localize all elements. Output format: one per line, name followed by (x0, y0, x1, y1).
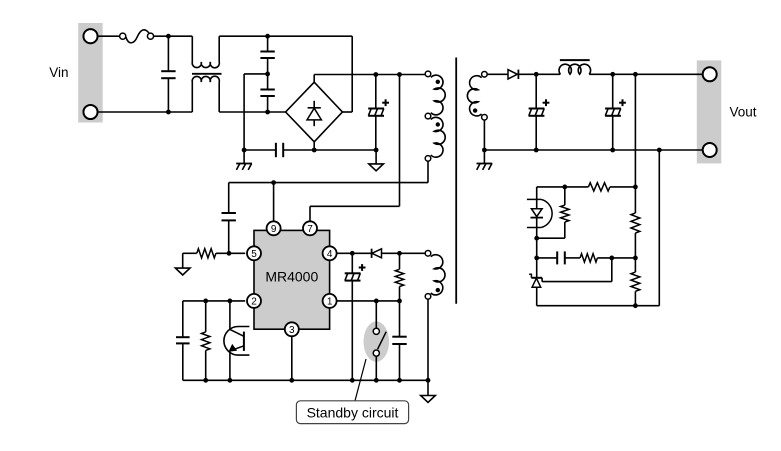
svg-text:2: 2 (251, 297, 257, 308)
svg-text:9: 9 (271, 224, 277, 235)
svg-text:Vin: Vin (49, 65, 68, 80)
svg-text:Vout: Vout (730, 104, 757, 119)
svg-text:Standby circuit: Standby circuit (307, 404, 399, 420)
svg-text:3: 3 (289, 325, 295, 336)
svg-text:1: 1 (327, 297, 333, 308)
svg-text:4: 4 (327, 249, 333, 260)
svg-text:7: 7 (307, 224, 313, 235)
svg-text:5: 5 (251, 249, 257, 260)
svg-text:MR4000: MR4000 (265, 268, 318, 284)
